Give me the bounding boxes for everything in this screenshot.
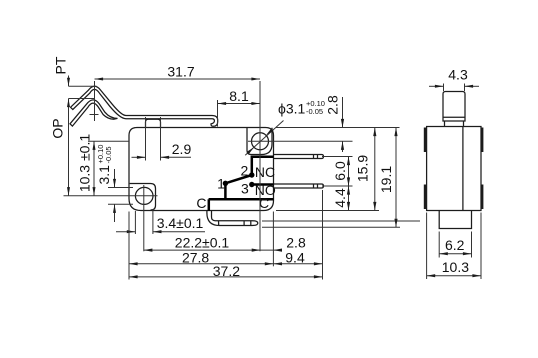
wire common rail C [209,198,274,201]
svg-text:19.1: 19.1 [378,166,394,193]
side view left lower tab [424,185,427,210]
node 2 [249,172,254,177]
body bottom edge extension line right [276,210,379,212]
dimension 31.7 extension line at lever tip [94,81,96,121]
dimension 8.1 [218,103,261,105]
svg-text:2: 2 [241,163,249,179]
svg-text:3.1: 3.1 [96,165,112,185]
dimension 2.9 extension lines [145,117,147,161]
mounting hole (top-right) [252,133,269,150]
side view parting line [462,127,464,211]
hole centerline vertical (bottom-left) [143,185,145,251]
dimension 6.0 [348,157,350,187]
svg-text:C: C [196,195,206,211]
side view body [427,127,481,211]
dimension 10.3±0.1 [93,141,95,195]
body left edge extension line bottom [128,212,130,280]
svg-text:3: 3 [241,180,249,196]
dimension 8.1 extension line [217,100,219,127]
hole centerline vertical (top-right) [259,81,261,251]
dimension 2.8 bottom [260,249,281,251]
svg-text:3.4±0.1: 3.4±0.1 [157,215,204,231]
svg-text:2.8: 2.8 [325,95,341,115]
dimension 3.4±0.1 [116,231,135,233]
terminal bottom extension lines [262,220,420,222]
wire common stub to bottom terminal [208,199,211,211]
wire moving contact blade 1-2 [225,175,251,183]
dimension 4.4 [348,186,350,211]
svg-text:NC: NC [255,164,275,180]
svg-text:37.2: 37.2 [213,263,240,279]
dimension 3.1 tol extension lines [108,187,133,189]
dimension 10.3 [427,275,481,277]
node 3 [249,182,254,187]
node 1 [223,181,228,186]
svg-text:4.3: 4.3 [448,67,468,83]
svg-text:PT: PT [53,56,69,74]
hole centerline horizontal (top-right) [248,140,353,142]
terminal NO centerline extension [322,185,353,187]
svg-text:31.7: 31.7 [167,64,194,80]
dimension 15.9 [374,128,376,211]
dimension 4.3 [429,85,444,87]
dimension 9.4 [273,263,322,265]
svg-text:10.3 ±0.1: 10.3 ±0.1 [77,134,93,192]
terminal NC blade [274,155,324,159]
svg-text:8.1: 8.1 [229,88,249,104]
bottom-left mounting boss outline [130,184,156,211]
svg-text:27.8: 27.8 [182,249,209,265]
svg-text:1: 1 [217,176,225,192]
svg-text:-0.05: -0.05 [306,107,323,116]
svg-text:6.2: 6.2 [445,237,465,253]
dimension 3.1 +0.10/-0.05 [114,169,116,188]
svg-text:15.9: 15.9 [355,155,371,182]
svg-text:10.3: 10.3 [442,259,469,275]
top-right mounting boss outline [247,128,272,155]
dimension phi 3.1 leader [245,121,283,156]
dimension 6.2 [439,253,471,255]
lever arm free position [71,86,218,126]
dimension 19.1 [395,128,397,228]
terminal common L-shaped blade [207,211,258,226]
side view right lower tab [481,185,484,210]
dimension 4.3 extension lines [443,84,445,92]
dimension OP [68,99,70,196]
body top edge extension line right [276,127,400,129]
dimension 10.3±0.1 extension line [88,140,129,142]
svg-text:ϕ3.1: ϕ3.1 [278,101,306,117]
svg-text:2.9: 2.9 [172,141,192,157]
dimension 31.7 [95,78,261,80]
body right edge extension line bottom [272,212,274,267]
side view left upper tab [424,128,427,153]
svg-text:22.2±0.1: 22.2±0.1 [175,235,230,251]
terminal NC centerline extension [322,156,353,158]
side view button neck [445,121,464,127]
dimension 22.2±0.1 [144,249,260,251]
terminal tip extension line bottom [322,190,324,280]
switch body outline [129,128,274,211]
hole centerline horizontal (bottom-left) [64,195,158,197]
plunger button on body top [146,119,161,127]
side view bottom terminal block [439,211,471,229]
dimension 37.2 [129,276,323,278]
dimension 27.8 [129,263,273,265]
wire NC path [252,157,274,175]
dimension 6.2 extension lines [438,232,440,258]
svg-text:4.4: 4.4 [332,188,348,208]
slotted mounting hole (bottom-left) [135,187,153,204]
dimension 2.9 [132,156,146,158]
side view right upper tab [481,128,484,153]
lever radius center mark [90,114,99,116]
svg-text:6.0: 6.0 [332,161,348,181]
slot hole tangent extension lines [134,211,136,234]
svg-text:-0.05: -0.05 [104,146,113,163]
wire NO path [252,183,274,186]
dimension 10.3 extension lines [426,213,428,280]
svg-text:9.4: 9.4 [285,249,305,265]
terminal NO blade [274,184,324,188]
side view push button [443,92,465,122]
svg-text:OP: OP [50,118,66,138]
dimension PT [68,76,70,87]
wire riser to pole 1 [224,183,227,199]
lever arm operating position (phantom) [70,100,118,126]
svg-text:2.8: 2.8 [286,235,306,251]
